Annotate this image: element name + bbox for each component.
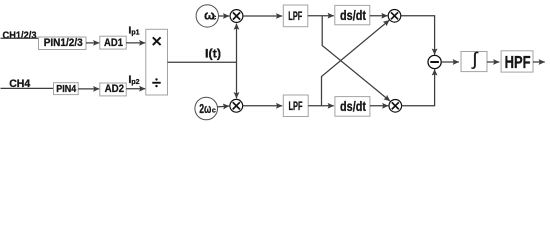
svg-text:HPF: HPF (505, 52, 531, 72)
svg-text:AD2: AD2 (105, 83, 125, 95)
wire PIN4 to AD2 (78, 88, 99, 90)
wire PIN1/2/3 to AD1 (86, 42, 99, 44)
oscillator wc (196, 5, 218, 27)
wire wc to mixer M1 (219, 15, 230, 17)
wire AD2 to multiplier-divider block (126, 88, 145, 90)
svg-text:AD1: AD1 (104, 37, 123, 49)
block divider U1 (x over divide) (146, 29, 168, 95)
block LPF1 (283, 5, 308, 27)
wire M1 to LPF1 (243, 15, 282, 17)
mixer M3 (388, 10, 401, 23)
svg-text:PIN1/2/3: PIN1/2/3 (44, 37, 83, 49)
block PIN4 (54, 83, 79, 95)
wire ds/dt2 to mixer M4 (370, 105, 388, 107)
wire LPF1 to ds/dt1 (308, 15, 334, 17)
svg-text:CH1/2/3: CH1/2/3 (3, 30, 37, 41)
symbol divide in divider block (152, 78, 160, 87)
wire LPF2 to ds/dt2 (308, 105, 334, 107)
mixer M4 (389, 100, 402, 113)
wire I(t) split vertical to both mixers (236, 24, 238, 99)
svg-text:LPF: LPF (289, 99, 303, 113)
wire AD1 to multiplier-divider block (126, 42, 145, 44)
block AD1 (100, 36, 126, 49)
wire CH1/2/3 to PIN1/2/3 (1, 37, 41, 39)
oscillator 2wc (195, 97, 218, 120)
svg-text:PIN4: PIN4 (56, 84, 76, 95)
block ds/dt2 (335, 97, 370, 117)
svg-text:c: c (212, 12, 216, 21)
block integrator (461, 49, 487, 72)
symbol multiply in divider block (153, 37, 161, 45)
wire subtractor to integrator (441, 61, 459, 63)
block LPF2 (283, 95, 308, 117)
svg-text:2ω: 2ω (199, 101, 211, 116)
block AD2 (100, 83, 126, 96)
svg-text:LPF: LPF (288, 9, 302, 23)
svg-text:ds/dt: ds/dt (340, 99, 366, 114)
mixer M1 (230, 10, 243, 23)
wire M4 to subtractor (402, 69, 435, 106)
svg-text:∫: ∫ (471, 49, 479, 69)
svg-text:c: c (212, 106, 216, 115)
wire cross branch from LPF1 down (322, 16, 390, 101)
wire HPF output (533, 61, 545, 63)
mixer M2 (230, 99, 243, 112)
wire M3 to subtractor (401, 16, 435, 55)
wire cross branch from LPF2 up (322, 20, 390, 106)
wire ds/dt1 to mixer M3 (370, 15, 388, 17)
wire CH4 to PIN4 (1, 87, 55, 89)
block PIN1/2/3 (39, 37, 87, 50)
wire M2 to LPF2 (243, 105, 282, 107)
wire 2wc to mixer M2 (218, 105, 230, 108)
subtractor S1 (428, 55, 441, 68)
wire integrator to HPF (487, 61, 499, 63)
wire I(t) output (168, 61, 237, 63)
svg-text:I(t): I(t) (205, 48, 221, 60)
block ds/dt1 (335, 5, 370, 24)
svg-text:ds/dt: ds/dt (340, 8, 366, 23)
block HPF (501, 51, 533, 72)
